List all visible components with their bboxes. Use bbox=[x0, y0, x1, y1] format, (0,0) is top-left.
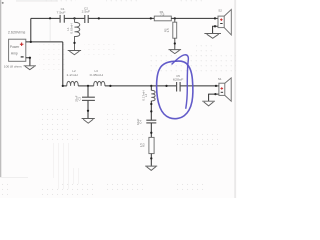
svg-text:62uF: 62uF bbox=[136, 118, 140, 125]
grid dot patch right middle bbox=[148, 52, 236, 73]
wire middle rail segment D bbox=[181, 85, 217, 87]
node L1 tap bbox=[73, 17, 75, 19]
wire C4 to R3 bbox=[150, 123, 152, 137]
annotation blue circle bbox=[157, 61, 193, 119]
wire top rail segment D bbox=[171, 17, 215, 19]
wire S1 plus lead bbox=[216, 85, 219, 87]
svg-text:Power: Power bbox=[10, 45, 20, 49]
node S1 minus terminal bbox=[214, 93, 216, 95]
resistor R3 bbox=[149, 137, 154, 153]
resistor R1 bbox=[154, 16, 171, 21]
capacitor C5 bbox=[177, 82, 181, 92]
minus mark S2 bbox=[220, 23, 222, 25]
svg-text:2.5uF: 2.5uF bbox=[82, 10, 91, 14]
ground under L1 bbox=[68, 51, 81, 55]
svg-text:0.17mH: 0.17mH bbox=[142, 90, 146, 100]
svg-text:1.2mH: 1.2mH bbox=[66, 73, 77, 77]
svg-text:S1: S1 bbox=[218, 77, 222, 81]
plus mark S1 bbox=[221, 87, 224, 90]
page corner mark bbox=[2, 2, 4, 4]
grid dot patch center bbox=[107, 112, 130, 138]
ground under S1 bbox=[202, 101, 215, 106]
wire top rail segment C bbox=[89, 17, 155, 19]
grid dot patch bottom left corner bbox=[0, 183, 8, 197]
faint stub below node bbox=[49, 19, 51, 41]
capacitor C2 bbox=[85, 15, 88, 23]
page left edge bbox=[0, 0, 1, 177]
node C4 top bbox=[150, 110, 152, 112]
page bottom edge left bbox=[0, 176, 28, 179]
speaker S1 bbox=[219, 78, 231, 101]
inductor L2 bbox=[67, 81, 78, 86]
wire down to middle rail bbox=[62, 42, 64, 86]
svg-text:0.62mH: 0.62mH bbox=[70, 23, 74, 33]
svg-text:0.45mH: 0.45mH bbox=[90, 73, 103, 77]
node S1 plus terminal bbox=[215, 85, 217, 87]
grid dot patch center low band bbox=[109, 133, 144, 143]
wire S1 minus lead to ground bbox=[209, 94, 219, 101]
grid dot patch bottom 2 bbox=[107, 180, 143, 192]
grid dot patch bottom 1 bbox=[59, 183, 93, 196]
node amp minus bbox=[29, 57, 31, 59]
node L1 bottom bbox=[73, 42, 75, 44]
node C3 bottom bbox=[87, 110, 89, 112]
inductor L3 bbox=[94, 81, 105, 86]
svg-text:S2: S2 bbox=[218, 8, 222, 12]
wire middle rail segment C bbox=[105, 85, 176, 87]
grid dot patch center left band bbox=[38, 108, 71, 143]
svg-text:7.5: 7.5 bbox=[160, 13, 165, 17]
node L4 tap bbox=[150, 85, 152, 87]
resistor R2 bbox=[173, 18, 177, 49]
svg-text:2.620Vrms: 2.620Vrms bbox=[8, 31, 26, 35]
grid dot patch under S2 ground bbox=[196, 43, 212, 56]
wire up to top rail bbox=[30, 18, 32, 42]
power amp source V1 bbox=[9, 39, 26, 61]
page top edge bbox=[16, 0, 58, 2]
node S2 plus terminal bbox=[214, 17, 216, 19]
node after C2 bbox=[98, 17, 100, 19]
wire S2 minus lead to ground bbox=[213, 26, 218, 33]
ground under R2 bbox=[169, 50, 182, 54]
wire R3 to ground bbox=[150, 154, 152, 166]
wire S2 plus lead bbox=[215, 17, 218, 19]
svg-text:Amp: Amp bbox=[11, 51, 18, 55]
wire top rail segment A bbox=[31, 17, 60, 19]
wire middle rail segment B bbox=[78, 85, 94, 87]
svg-text:100 (8 ohms: 100 (8 ohms bbox=[4, 65, 23, 69]
page right edge bbox=[234, 0, 237, 198]
wire amp plus output bbox=[26, 41, 63, 43]
annotation blue hook bbox=[172, 55, 188, 108]
node R1 left bbox=[150, 17, 152, 19]
svg-text:620uF: 620uF bbox=[173, 78, 184, 82]
inductor L1 bbox=[75, 18, 80, 50]
grid dot patch top center bbox=[106, 0, 138, 5]
wire amp minus output bbox=[26, 58, 30, 66]
capacitor C3 bbox=[82, 86, 95, 118]
node on top rail bbox=[49, 17, 51, 19]
grid dot patch bottom left 2 bbox=[40, 185, 60, 198]
ground under amp bbox=[24, 66, 36, 70]
ground under R3 bbox=[145, 166, 157, 170]
speaker S2 bbox=[218, 10, 231, 35]
grid dot patch top right bbox=[180, 0, 205, 5]
capacitor C1 bbox=[60, 15, 64, 23]
ground under S2 bbox=[204, 34, 221, 39]
svg-text:1.5: 1.5 bbox=[139, 143, 143, 147]
grid dot patch right low band bbox=[174, 133, 218, 148]
node after L3 bbox=[109, 85, 111, 87]
node middle rail start bbox=[62, 85, 64, 87]
node S2 minus terminal bbox=[214, 25, 216, 27]
minus mark S1 bbox=[221, 91, 223, 93]
node R2 bottom bbox=[174, 42, 176, 44]
svg-text:3.5: 3.5 bbox=[166, 28, 170, 32]
svg-text:25uF: 25uF bbox=[75, 95, 79, 102]
svg-text:7.5uF: 7.5uF bbox=[57, 10, 66, 14]
scan streaks left-bottom bbox=[54, 143, 79, 189]
wire middle rail segment A bbox=[63, 85, 67, 87]
plus mark amp bbox=[20, 42, 24, 46]
plus mark S2 bbox=[220, 18, 223, 21]
node L4 bottom bbox=[150, 103, 152, 105]
node C3 tap bbox=[87, 85, 89, 87]
wire top rail segment B bbox=[65, 17, 85, 19]
grid dot patch bottom 3 bbox=[176, 182, 204, 194]
ground under C3 bbox=[82, 119, 95, 124]
node R3 top bbox=[150, 132, 152, 134]
node amp plus bbox=[30, 41, 32, 43]
node R3 bottom bbox=[150, 157, 152, 159]
grid dot patch right of L1 ground bbox=[84, 43, 116, 56]
node R1 right bbox=[174, 17, 176, 19]
grid dot patch left of amp output bbox=[39, 43, 67, 70]
inductor L4 bbox=[151, 86, 155, 120]
minus mark amp bbox=[21, 56, 24, 58]
capacitor C4 bbox=[146, 120, 156, 123]
node before C5 bbox=[165, 85, 167, 87]
